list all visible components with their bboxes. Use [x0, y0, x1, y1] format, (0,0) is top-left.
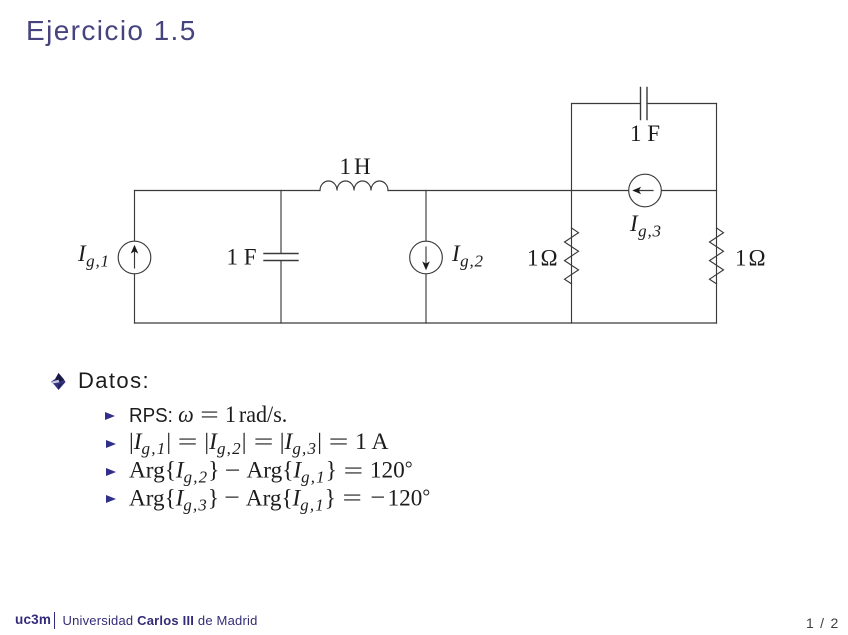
- svg-text:Ω: Ω: [749, 246, 766, 271]
- svg-text:Ω: Ω: [541, 246, 558, 271]
- svg-text:H: H: [354, 154, 371, 179]
- svg-text:1: 1: [340, 154, 352, 179]
- svg-text:Ig,2: Ig,2: [451, 241, 484, 271]
- svg-text:1: 1: [527, 246, 539, 271]
- svg-text:1: 1: [735, 246, 747, 271]
- svg-text:Ig,3: Ig,3: [629, 211, 662, 241]
- svg-text:1 F: 1 F: [227, 245, 257, 270]
- svg-text:Ig,1: Ig,1: [77, 241, 110, 271]
- svg-text:1 F: 1 F: [630, 121, 660, 146]
